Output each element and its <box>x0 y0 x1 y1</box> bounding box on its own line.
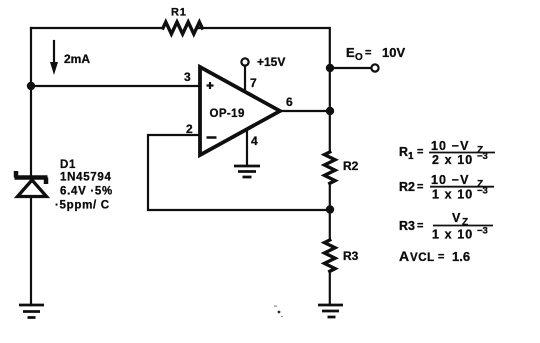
svg-text:=: = <box>417 181 423 193</box>
svg-text:D1: D1 <box>60 159 76 171</box>
svg-text:O: O <box>355 52 363 63</box>
svg-text:1 x 10: 1 x 10 <box>432 228 473 242</box>
svg-text:R2: R2 <box>343 159 359 173</box>
svg-text:10V: 10V <box>382 45 405 60</box>
svg-text:2 x 10: 2 x 10 <box>432 153 473 167</box>
svg-text:A: A <box>399 248 409 264</box>
svg-text:2mA: 2mA <box>64 52 90 66</box>
svg-text:2: 2 <box>186 122 193 136</box>
svg-text:V: V <box>452 211 461 225</box>
svg-text:R: R <box>399 145 408 159</box>
svg-text:6.4V ·5%: 6.4V ·5% <box>60 186 113 198</box>
svg-text:=: = <box>438 251 444 263</box>
svg-text:R2: R2 <box>399 180 415 194</box>
svg-text:10 −V: 10 −V <box>431 173 470 187</box>
svg-text:R3: R3 <box>399 219 415 233</box>
svg-text:R1: R1 <box>171 7 187 19</box>
svg-text:R3: R3 <box>343 249 359 263</box>
svg-text:OP-19: OP-19 <box>210 108 245 120</box>
svg-text:·5ppm/ C: ·5ppm/ C <box>55 200 110 212</box>
svg-text:4: 4 <box>251 134 258 148</box>
svg-text:1.6: 1.6 <box>452 249 470 264</box>
svg-text:=: = <box>417 146 423 158</box>
svg-text:+15V: +15V <box>257 55 285 69</box>
svg-text:7: 7 <box>250 76 257 90</box>
svg-text:E: E <box>346 45 355 60</box>
svg-text:1: 1 <box>408 151 414 162</box>
svg-text:=: = <box>365 47 371 59</box>
svg-text:10 −V: 10 −V <box>431 139 470 153</box>
svg-text:1N45794: 1N45794 <box>60 172 112 184</box>
svg-text:−3: −3 <box>477 226 488 237</box>
svg-text:1 x 10: 1 x 10 <box>432 188 473 202</box>
svg-text:6: 6 <box>286 95 293 109</box>
svg-text:3: 3 <box>184 70 191 84</box>
svg-text:VCL: VCL <box>410 252 435 264</box>
svg-text:=: = <box>417 220 423 232</box>
